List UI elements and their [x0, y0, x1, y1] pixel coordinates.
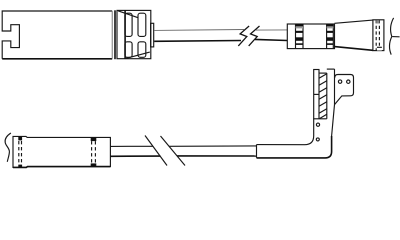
plug band 1 rung low: [296, 43, 304, 45]
wire 1 bottom line right segment: [255, 39, 287, 40]
plug band 1 grey cell: [296, 26, 304, 28]
plug nose top edge: [335, 20, 373, 23]
sensor 2 cut squiggle: [5, 133, 11, 162]
bracket outer right edge lower slant: [332, 105, 335, 136]
connector cell top-right: [138, 13, 146, 36]
sensor 1 moulded connector outline: [117, 10, 151, 58]
bracket hatched strut B top cap: [319, 72, 327, 74]
connector bottom taper line: [125, 52, 150, 59]
bracket strut A left line: [313, 70, 315, 119]
plug band 2 rung: [327, 31, 334, 33]
grommet sleeve left edge: [256, 145, 258, 158]
wire 2 break slash left: [145, 136, 167, 166]
connector cell bottom-left: [125, 42, 132, 58]
plug band 1 rung: [296, 31, 304, 33]
bracket strut C top cap: [327, 68, 335, 70]
sensor 2 band 1 black cap top: [18, 136, 22, 140]
grommet sleeve top edge into bracket inner corner: [257, 119, 314, 145]
wire 2 top line left segment: [110, 145, 152, 147]
wire 1 bottom line left segment: [154, 40, 241, 43]
plug tip cut squiggle: [389, 18, 393, 55]
plug band 2 rung low: [327, 43, 334, 45]
plug tip tick: [392, 36, 399, 38]
sensor 2 band 2 black cap bottom: [91, 163, 97, 166]
sensor 2 band 1 dashed bar right: [21, 141, 23, 165]
sensor 2 band 2 dashed bar right: [94, 141, 96, 163]
wire 2 break slash right: [161, 136, 186, 166]
hatching lines of strut B: [319, 74, 327, 119]
plug cap dashed line 2: [378, 20, 380, 50]
sensor 1 body right edge: [111, 11, 113, 59]
bracket strut A rung: [314, 93, 319, 95]
connector top taper line: [118, 11, 138, 18]
connector thick divider: [124, 10, 126, 58]
plug ring band 1 left line: [295, 24, 297, 49]
sensor 2 band 2 black cap top: [91, 137, 97, 141]
bracket hatched strut B right line: [326, 73, 328, 119]
sensor 1 body bottom edge: [2, 58, 112, 60]
wire 2 top line right segment: [169, 145, 256, 147]
plug housing outline: [287, 24, 334, 49]
plug cap bottom notch: [377, 48, 382, 51]
plug band 2 black cell top: [327, 24, 334, 26]
plug cap notch top line: [377, 46, 382, 48]
plug ring band 2 right line: [332, 24, 334, 49]
bracket hole upper: [316, 123, 319, 126]
bracket bottom bold edge with corner: [257, 136, 332, 158]
wire 1 top line right segment: [256, 29, 287, 31]
plug band 2 grey cell: [327, 26, 334, 28]
bracket strut A right line: [318, 70, 320, 119]
plug cap dashed line 1: [375, 20, 377, 50]
bracket outer right edge upper: [334, 69, 336, 105]
sensor 2 connector body outline: [13, 136, 110, 167]
wire 2 bottom line right segment: [177, 155, 256, 157]
wire 1 top line left segment: [154, 29, 244, 32]
bracket strut bottom cap: [313, 118, 327, 120]
sensor 2 body bottom bold edge: [13, 166, 110, 169]
sensor 1 body with clip slot profile: [2, 11, 112, 59]
plug ring band 2 left line: [326, 24, 328, 49]
tab hole right: [347, 80, 350, 83]
wire 2 bottom line left segment: [110, 155, 160, 157]
mounting tab outline: [335, 75, 354, 105]
connector cell top-left: [125, 13, 132, 36]
connector cell bottom-right: [138, 42, 146, 58]
wire 1 break mark right: [249, 26, 260, 46]
plug end cap: [373, 20, 384, 51]
connector stub: [151, 23, 154, 47]
tab hole left: [338, 80, 341, 83]
bracket strut A top cap: [313, 69, 319, 71]
bracket hole lower: [316, 138, 319, 141]
plug band 1 black cell top: [296, 24, 304, 26]
plug cap grey top cell: [376, 20, 379, 23]
plug ring band 1 right line: [302, 24, 304, 49]
sensor 1 collar ring: [114, 10, 116, 59]
plug band 1 black cell mid: [296, 37, 304, 41]
sensor 2 band 1 black cap bottom: [18, 165, 22, 168]
wire 1 break mark left: [238, 26, 249, 46]
sensor 2 band 2 dashed bar left: [91, 141, 93, 163]
plug nose bottom edge: [335, 47, 373, 51]
plug band 2 black cell mid: [327, 37, 334, 41]
sensor 2 band 1 dashed bar left: [18, 141, 20, 165]
